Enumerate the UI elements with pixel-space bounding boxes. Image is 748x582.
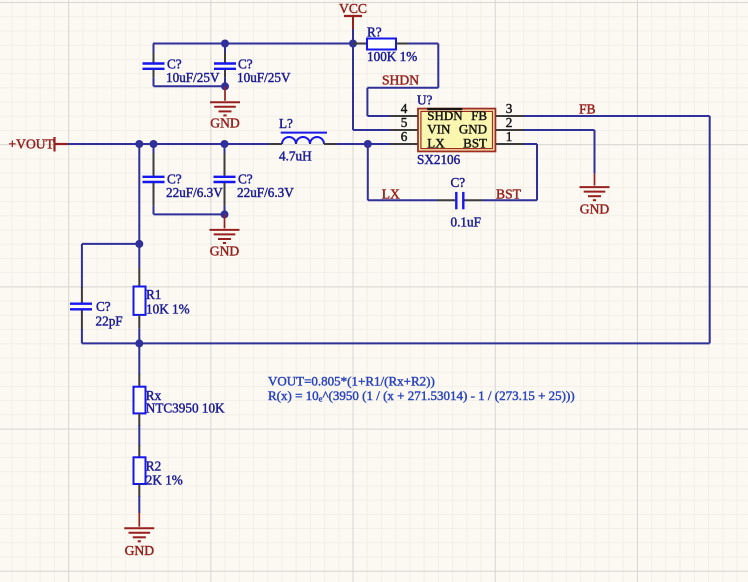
svg-text:BST: BST — [463, 136, 487, 151]
svg-text:22uF/6.3V: 22uF/6.3V — [237, 185, 294, 200]
node cap bottom junction — [221, 82, 229, 90]
svg-text:GND: GND — [210, 116, 240, 131]
wire R? to SHDN loop — [408, 43, 438, 45]
capacitor C? 22pF — [81, 244, 83, 288]
capacitor C? 10uF/25V right — [224, 44, 226, 53]
svg-text:R?: R? — [367, 24, 382, 39]
wire VCC down to VIN — [352, 44, 354, 131]
wire LX branch down — [367, 144, 369, 200]
svg-text:FB: FB — [471, 108, 487, 123]
wire rail down to R1 — [138, 144, 140, 268]
svg-text:1: 1 — [506, 129, 513, 144]
svg-text:GND: GND — [125, 543, 155, 558]
wire inductor to LX pin — [337, 143, 390, 145]
wire 22pF top branch — [82, 243, 139, 245]
svg-text:0.1uF: 0.1uF — [451, 214, 481, 229]
op-amp U1 SX2106 body — [418, 109, 495, 152]
svg-text:GND: GND — [580, 202, 610, 217]
svg-text:SX2106: SX2106 — [417, 152, 461, 167]
svg-text:5: 5 — [401, 115, 408, 130]
capacitor C? 22uF/6.3V right — [224, 144, 226, 153]
node rail cap branch right — [221, 140, 229, 148]
wire top rail VCC to caps — [153, 43, 353, 45]
svg-text:R(x) = 10e^(3950 (1 / (x + 271: R(x) = 10e^(3950 (1 / (x + 271.53014) - … — [268, 388, 575, 403]
node cap top junction — [221, 40, 229, 48]
svg-text:3: 3 — [506, 101, 513, 116]
ground GND of 22uF caps — [224, 214, 226, 228]
inductor L? 4.7uH — [270, 143, 283, 145]
ground GND of 10uF caps — [224, 86, 226, 101]
svg-text:VOUT=0.805*(1+R1/(Rx+R2)): VOUT=0.805*(1+R1/(Rx+R2)) — [268, 374, 435, 389]
wire pin1 BST down — [524, 143, 537, 145]
svg-text:10K 1%: 10K 1% — [146, 302, 190, 317]
capacitor C? 22uF/6.3V left — [153, 144, 155, 153]
node rail R1 branch — [135, 140, 143, 148]
node VCC junction — [349, 40, 357, 48]
resistor R? 100K — [353, 43, 367, 45]
svg-text:VIN: VIN — [427, 122, 451, 137]
pin name SHDN with overline — [427, 108, 462, 110]
wire FB vertical — [709, 116, 711, 343]
svg-text:SHDN: SHDN — [382, 72, 419, 87]
wire pin2 to GND — [524, 129, 595, 131]
svg-text:2K 1%: 2K 1% — [146, 472, 183, 487]
svg-text:LX: LX — [427, 136, 445, 151]
node rail cap branch — [150, 140, 158, 148]
node LX branch — [364, 140, 372, 148]
wire R1 to junction — [138, 328, 140, 343]
svg-text:C?: C? — [96, 299, 111, 314]
svg-text:+VOUT: +VOUT — [9, 136, 55, 151]
svg-text:10uF/25V: 10uF/25V — [237, 70, 291, 85]
svg-text:22pF: 22pF — [96, 314, 123, 329]
svg-text:2: 2 — [506, 115, 513, 130]
node feedback junction — [135, 339, 143, 347]
pin 1 BST — [496, 143, 524, 145]
svg-text:NTC3950 10K: NTC3950 10K — [146, 401, 225, 416]
svg-text:GND: GND — [459, 122, 487, 137]
wire 22pF bottom branch — [82, 342, 139, 344]
ground GND pin2 — [594, 174, 596, 186]
wire Rx to R2 — [138, 425, 140, 446]
pin 3 FB — [496, 115, 524, 117]
svg-text:GND: GND — [210, 243, 240, 258]
svg-text:100K 1%: 100K 1% — [367, 49, 417, 64]
wire bottom rail of 10uF caps — [154, 85, 226, 87]
wire FB net — [524, 115, 710, 117]
wire bottom rail of 22uF caps — [154, 213, 225, 215]
ground GND bottom — [138, 513, 140, 527]
svg-text:VCC: VCC — [339, 1, 367, 16]
wire FB bottom return — [139, 342, 709, 344]
svg-text:4: 4 — [401, 101, 408, 116]
power VCC — [344, 15, 362, 17]
wire R2 to ground — [138, 496, 140, 513]
resistor Rx NTC — [138, 374, 140, 387]
resistor R2 2K — [138, 445, 140, 457]
svg-text:6: 6 — [401, 129, 408, 144]
pin 6 LX — [390, 143, 418, 145]
svg-text:U?: U? — [417, 93, 433, 108]
wire junction down to Rx — [138, 343, 140, 375]
capacitor C? 10uF/25V left — [153, 44, 155, 53]
wire VIN horizontal — [353, 129, 390, 131]
capacitor C? 0.1uF — [437, 199, 455, 201]
pin 2 GND — [496, 129, 524, 131]
node R1 top junction — [135, 240, 143, 248]
svg-text:BST: BST — [496, 186, 522, 201]
svg-text:L?: L? — [279, 116, 293, 131]
node 22uF bottom junction — [221, 210, 229, 218]
svg-text:4.7uH: 4.7uH — [279, 149, 312, 164]
svg-text:FB: FB — [579, 102, 596, 117]
pin 5 VIN — [390, 129, 418, 131]
svg-text:R2: R2 — [146, 459, 161, 474]
resistor R1 10K — [138, 268, 140, 287]
svg-text:LX: LX — [382, 186, 400, 201]
svg-text:C?: C? — [451, 175, 466, 190]
svg-text:R1: R1 — [146, 287, 161, 302]
svg-text:10uF/25V: 10uF/25V — [166, 70, 220, 85]
svg-text:22uF/6.3V: 22uF/6.3V — [166, 185, 223, 200]
svg-text:SHDN: SHDN — [427, 108, 463, 123]
pin 4 SHDN — [390, 115, 418, 117]
wire main rail left — [68, 143, 270, 145]
wire VCC stem — [352, 29, 354, 44]
